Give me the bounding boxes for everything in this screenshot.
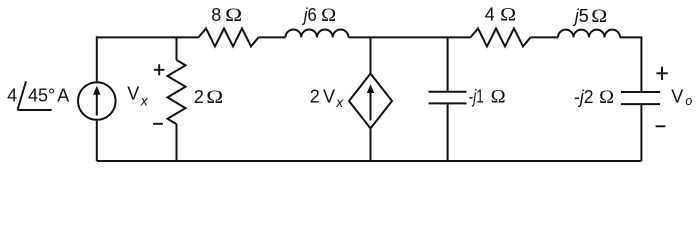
label -j2 ohm	[574, 87, 614, 108]
capacitor -j2 ohm bottom lead	[640, 105, 642, 161]
current source I1 leads	[96, 36, 98, 161]
plus sign Vo	[656, 67, 667, 80]
label -j1 ohm	[469, 87, 506, 108]
inductor j6 ohm	[286, 30, 349, 38]
svg-text:2: 2	[310, 86, 320, 106]
svg-text:4: 4	[7, 85, 17, 105]
svg-text:x: x	[335, 94, 344, 110]
svg-text:-j2: -j2	[574, 87, 594, 107]
label 4 ohm	[485, 4, 516, 25]
resistor 4 ohm	[471, 28, 531, 46]
svg-text:V: V	[671, 86, 683, 106]
svg-text:4: 4	[485, 4, 495, 24]
svg-text:A: A	[57, 86, 69, 106]
label j6 ohm	[301, 5, 336, 26]
wire top right corner	[620, 37, 641, 91]
capacitor -j1 ohm leads	[447, 36, 449, 161]
label 4 angle 45 A	[7, 85, 69, 105]
svg-text:x: x	[140, 92, 149, 108]
dependent source 2Vx leads	[370, 36, 372, 161]
label 8 ohm	[211, 5, 242, 26]
wire bottom rail	[97, 160, 642, 162]
svg-text:V: V	[127, 84, 139, 104]
angle symbol slash	[18, 81, 27, 110]
current source I1 arrow	[93, 86, 100, 116]
label 2 Vx	[310, 86, 344, 110]
svg-text:j6: j6	[301, 5, 317, 25]
resistor 8 ohm	[199, 28, 259, 46]
capacitor -j1 ohm plates	[429, 92, 467, 104]
label 2 ohm	[194, 87, 223, 108]
svg-text:Ω: Ω	[491, 87, 506, 108]
svg-text:Ω: Ω	[225, 5, 242, 26]
svg-text:8: 8	[211, 5, 221, 25]
svg-text:Ω: Ω	[206, 87, 223, 108]
inductor j5 ohm	[558, 30, 620, 38]
plus sign Vx	[154, 64, 165, 75]
svg-text:45°: 45°	[28, 86, 55, 106]
label Vx	[127, 84, 149, 109]
wire top rail left segment	[97, 36, 199, 38]
svg-text:Ω: Ω	[599, 87, 614, 108]
dependent source 2Vx arrow	[367, 84, 374, 120]
svg-text:-j1: -j1	[469, 87, 484, 107]
svg-text:j5: j5	[572, 6, 589, 26]
svg-text:2: 2	[194, 87, 204, 107]
svg-text:Ω: Ω	[321, 5, 336, 26]
svg-text:o: o	[685, 94, 692, 108]
svg-text:Ω: Ω	[591, 6, 607, 27]
minus sign Vx	[153, 123, 163, 125]
capacitor -j2 ohm plates	[621, 92, 660, 104]
dependent source 2Vx diamond	[349, 74, 392, 129]
minus sign Vo	[656, 125, 666, 127]
svg-text:Ω: Ω	[500, 4, 516, 25]
current source I1 circle	[78, 82, 116, 120]
label Vo	[671, 86, 692, 108]
svg-text:V: V	[323, 86, 335, 106]
wire between 8 ohm and j6	[259, 36, 286, 38]
label j5 ohm	[572, 6, 607, 27]
wire between 4 ohm and j5	[531, 36, 559, 38]
resistor 2 ohm vertical	[168, 36, 186, 161]
angle symbol underline	[18, 109, 52, 111]
wire top rail middle segment	[349, 36, 471, 38]
